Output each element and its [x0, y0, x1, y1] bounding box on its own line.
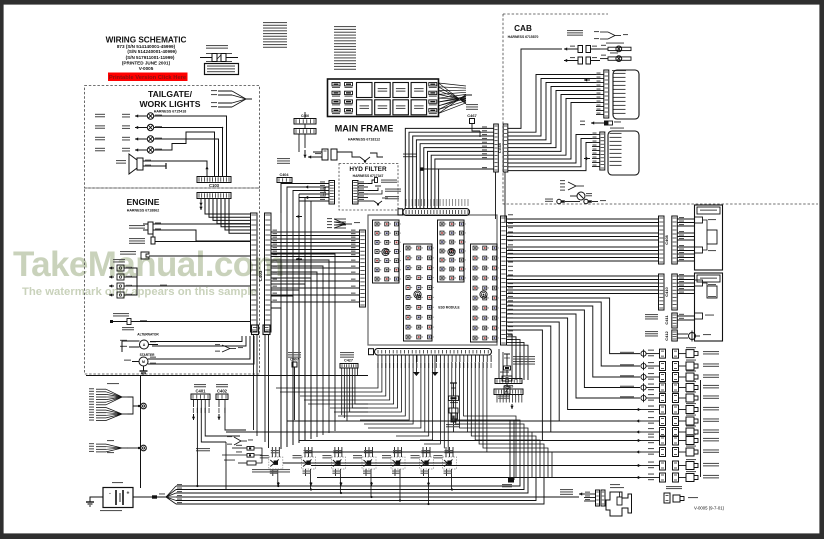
lamp wire right work light	[160, 139, 219, 176]
mainframe fan symbol	[334, 218, 346, 220]
lamp wire left taillight	[160, 128, 223, 177]
ring terminal 2	[141, 445, 147, 451]
fuel shutoff note	[122, 327, 134, 328]
fuse box outline	[328, 79, 439, 117]
svg-text:HARNESS 6718862: HARNESS 6718862	[127, 209, 160, 213]
tailgate fan symbol	[218, 90, 232, 92]
svg-text:C403: C403	[258, 270, 263, 281]
connector C427	[340, 364, 358, 369]
module terminal strip B	[404, 244, 433, 341]
connector C412	[672, 330, 678, 341]
fuse box left fuses	[332, 83, 340, 86]
battery pos wire	[133, 496, 152, 498]
lamp wire left work light jog	[160, 132, 215, 176]
battery distribution fan	[166, 486, 176, 497]
C407 label block	[288, 352, 301, 353]
connector C104	[197, 193, 231, 199]
module to solenoid nested wires	[507, 298, 640, 354]
injector 2	[117, 274, 124, 280]
battery ground note	[100, 510, 122, 511]
bus junction dots	[196, 485, 198, 487]
flasher sym	[506, 370, 508, 376]
relay 6 (FRONT)	[420, 457, 434, 469]
fuse box switch squares	[357, 83, 373, 98]
svg-text:The watermark only appears on: The watermark only appears on this sampl…	[22, 286, 257, 298]
ring terminal 1	[141, 403, 147, 409]
hyd temp sender	[368, 180, 375, 184]
speaker wire 1	[150, 161, 207, 176]
horn	[591, 122, 596, 124]
bundle C403 down to bottom	[271, 308, 281, 449]
connector C402	[216, 394, 228, 400]
cab dome lamp	[577, 192, 585, 200]
bus right risers	[700, 380, 702, 477]
fan small cab	[608, 32, 615, 36]
cab right panel	[608, 131, 639, 175]
relay 7 (TRACTION)	[443, 457, 457, 469]
engine coolant sender	[151, 237, 155, 244]
relay 5 (STARTER)	[391, 457, 405, 469]
svg-text:ENGINE: ENGINE	[127, 197, 160, 207]
module top connector	[403, 209, 470, 216]
right panel row labels	[610, 133, 622, 134]
small fan bottom	[234, 437, 241, 441]
svg-text:MAIN FRAME: MAIN FRAME	[335, 124, 394, 134]
starter ground	[143, 366, 145, 371]
module bottom connector	[375, 349, 492, 356]
relay 1 (GLOW)	[269, 457, 283, 469]
module left wire labels	[273, 230, 278, 231]
fuel shutoff wire	[138, 321, 250, 323]
svg-text:C410: C410	[664, 286, 669, 296]
fuse box wire fan	[439, 83, 467, 104]
injector feed wire	[137, 285, 250, 287]
svg-text:C105: C105	[322, 186, 327, 196]
module terminal strip C	[438, 220, 465, 282]
bundle terminal stub	[420, 167, 423, 170]
solenoid row 7 (BASE)	[636, 420, 641, 422]
ground fan 3	[96, 443, 106, 445]
C401 wires down	[196, 407, 198, 486]
right panel pin strip	[600, 132, 605, 170]
C105 feeder bundle	[281, 184, 299, 450]
arrow mid rows	[296, 216, 302, 218]
engine section dashed box	[85, 188, 260, 374]
tail/work lamp L4	[135, 149, 141, 151]
svg-text:C401: C401	[195, 389, 206, 394]
C425 pins down	[497, 396, 498, 403]
diode block 2	[247, 454, 254, 458]
connector CA60 left	[494, 124, 499, 172]
connector C401	[191, 394, 210, 400]
cab inline connectors	[557, 199, 561, 203]
relay note text	[252, 469, 290, 470]
connector C403 right half	[265, 213, 272, 332]
fuse box right fuses	[429, 83, 437, 86]
fuel sender label	[610, 487, 624, 488]
solenoid row 2 (BUCKET)	[641, 363, 646, 368]
left panel pin strip	[604, 70, 609, 118]
svg-text:CAB: CAB	[514, 24, 532, 33]
glow plug block	[148, 222, 153, 234]
C103 pin stubs dashed	[206, 168, 208, 177]
left handle internals	[695, 280, 703, 286]
battery plates	[115, 490, 117, 505]
C403 bottom inline connector B	[263, 325, 270, 335]
C403 bottom inline connector A	[252, 325, 259, 335]
tailgate section dashed box	[85, 86, 260, 189]
svg-text:HYD FILTER: HYD FILTER	[349, 166, 387, 173]
main module outline	[368, 215, 497, 345]
C403 continuation wires	[253, 335, 255, 431]
ground fan 1	[96, 388, 106, 390]
attachment text	[513, 356, 535, 357]
C401 pins	[193, 400, 195, 408]
long horizontal wire	[86, 375, 368, 377]
svg-text:M: M	[142, 360, 145, 364]
svg-text:HARNESS 6718112: HARNESS 6718112	[348, 138, 380, 142]
right panel arrow	[584, 158, 590, 160]
svg-text:C402: C402	[217, 389, 228, 394]
module terminal strip A	[373, 220, 400, 283]
svg-text:V-0005: V-0005	[139, 66, 154, 71]
svg-text:C411: C411	[664, 315, 669, 325]
bus wire labels	[177, 484, 182, 485]
svg-text:+: +	[127, 491, 130, 497]
C402 pins	[218, 400, 220, 408]
svg-text:(S/N 517911001-11999): (S/N 517911001-11999)	[126, 55, 175, 60]
module bottom pin stubs	[377, 355, 379, 362]
coolant sender wire	[162, 241, 250, 243]
connector C425 upper	[495, 379, 522, 384]
oil filter sensor	[308, 156, 313, 158]
module terminal strip D	[471, 244, 498, 342]
svg-text:C412: C412	[664, 330, 669, 340]
wires module to C408	[507, 218, 659, 220]
connector C410 strip B	[672, 274, 678, 310]
legend connector symbol	[200, 57, 212, 59]
CA60 to module bundle	[405, 128, 494, 208]
harness wires C104 to C403	[205, 199, 250, 215]
right handle box	[695, 205, 723, 270]
svg-text:ESD MODULE: ESD MODULE	[438, 306, 459, 310]
solenoid row 12 (FAN MOTOR)	[636, 477, 641, 479]
C467 tail wire	[479, 131, 481, 137]
fuel sender connectors	[596, 490, 600, 506]
right panel wires	[592, 134, 600, 136]
C401 ground arrow	[193, 414, 195, 420]
connector C410 strip A	[659, 274, 665, 310]
C401 pin labels	[193, 408, 194, 413]
svg-text:(S/N 514240001-40999): (S/N 514240001-40999)	[127, 49, 177, 54]
svg-text:(PRINTED JUNE 2001): (PRINTED JUNE 2001)	[122, 61, 171, 66]
C103 arrow pin	[206, 166, 208, 174]
svg-text:TAILGATE/: TAILGATE/	[148, 89, 193, 99]
connector C425 lower	[494, 389, 523, 395]
left panel label	[612, 70, 626, 71]
C104 ground arrow	[200, 206, 202, 210]
fuel sender wires	[579, 493, 584, 495]
C402 label	[216, 384, 228, 385]
C406 wires down	[298, 134, 300, 152]
front headlight label	[606, 43, 624, 44]
C402 wires down	[225, 407, 246, 430]
module bottom pin labels	[377, 363, 378, 368]
C467 connector	[466, 104, 478, 105]
wires module to C410	[507, 275, 659, 277]
C427 label block	[340, 352, 354, 353]
fan3 label stubs	[107, 440, 114, 441]
relay 2 (FUEL)	[302, 457, 316, 469]
solenoid row 1 (BUCKET)	[641, 351, 646, 356]
ground fan label	[107, 383, 119, 384]
connector C406 lower	[294, 129, 316, 135]
fuse sym near C425	[504, 353, 510, 355]
cab harness bundle	[508, 49, 562, 128]
glow plug wires	[160, 223, 250, 225]
tail/work lamp L3	[135, 138, 141, 140]
module bottom ground arrows	[415, 375, 417, 377]
solenoid row 11 (SAFETY)	[636, 465, 641, 467]
svg-text:C427: C427	[344, 359, 353, 363]
C425 pin wires	[496, 395, 498, 396]
dome light label	[567, 30, 583, 31]
battery ground	[86, 501, 94, 503]
ground fan joint	[128, 397, 138, 406]
front headlight 1	[600, 48, 608, 50]
CA60 continuation down	[495, 172, 497, 219]
bottom border bar	[0, 533, 824, 539]
svg-text:TakeManual.com: TakeManual.com	[13, 245, 284, 284]
hyd filter sensor sym	[368, 200, 374, 202]
solenoid row 10 (LH SIGNAL)	[636, 451, 641, 453]
connector C406 upper	[294, 119, 316, 125]
left handle box	[695, 273, 723, 341]
svg-text:Printable Version Click Here: Printable Version Click Here	[109, 75, 187, 81]
speaker wire 2	[150, 165, 166, 167]
solenoid row 5 (BICADEC)	[641, 395, 646, 400]
C412 wires horn	[677, 333, 688, 335]
legend boxed note	[205, 64, 239, 75]
connector C103	[197, 177, 231, 183]
C402 ground arrow	[218, 414, 220, 420]
module left connector	[360, 230, 366, 307]
wires C408 to right handle	[677, 218, 694, 220]
C402 pin labels	[218, 408, 219, 413]
relay chain wire	[283, 462, 452, 464]
svg-text:C408: C408	[664, 234, 669, 244]
solenoid row 8 (ATTACH)	[636, 431, 641, 433]
battery box	[103, 488, 133, 508]
alternator feed wires	[150, 336, 242, 342]
C411 wires	[677, 315, 694, 317]
svg-text:C404: C404	[279, 173, 289, 177]
wires C410 to left handle	[677, 275, 694, 277]
svg-text:STARTER: STARTER	[140, 353, 156, 357]
svg-text:HARNESS 6717347: HARNESS 6717347	[353, 174, 384, 178]
hyd filter row wires	[358, 183, 368, 185]
backup alarm speaker	[129, 154, 137, 174]
mid fan symbol	[222, 345, 230, 349]
left panel wires	[596, 74, 604, 76]
connector C105 left	[329, 181, 335, 205]
front headlight 2	[600, 58, 608, 60]
oil pressure sender	[141, 252, 149, 259]
cab ground fan	[568, 182, 576, 186]
battery neg wire	[90, 497, 103, 502]
injector 1	[117, 265, 124, 271]
C425 arrow	[511, 404, 513, 409]
diode block 1	[196, 448, 210, 449]
ground fan 3 joint	[128, 447, 138, 449]
C401 label	[194, 384, 206, 385]
injector 4	[117, 292, 124, 298]
svg-text:HARNESS 6715870: HARNESS 6715870	[508, 35, 539, 39]
cab left panel	[613, 70, 639, 119]
alternator output wire	[149, 344, 159, 346]
connector CA60 right	[503, 124, 508, 172]
attach block	[224, 460, 235, 461]
solenoid row 3 (LIFT)	[641, 374, 646, 379]
starter wires right	[148, 358, 162, 360]
oil sender wire	[156, 255, 250, 257]
right handle internals	[695, 217, 703, 223]
svg-text:WORK LIGHTS: WORK LIGHTS	[139, 99, 200, 109]
right border bar	[819, 0, 824, 539]
C104 pins down	[200, 199, 202, 207]
top border bar	[0, 0, 824, 5]
legend note text	[206, 45, 228, 46]
fuel sender note	[610, 484, 620, 485]
diode wires right	[254, 448, 262, 455]
tail/work lamp L1	[135, 115, 141, 117]
fuel sender note2	[560, 489, 573, 490]
connector C105 right	[353, 181, 359, 205]
junction dot	[222, 127, 224, 129]
printable version red box	[108, 73, 188, 82]
relay 3 (FUEL)	[331, 457, 345, 469]
svg-text:HARNESS 6715418: HARNESS 6715418	[154, 110, 187, 114]
module top pin labels	[406, 199, 407, 206]
fuel shutoff solenoid	[113, 313, 129, 314]
C427 pins	[341, 368, 343, 376]
solenoid row 6 (FRONT BASE)	[636, 409, 641, 411]
inline flasher symbol	[453, 401, 455, 409]
connector C408 strip A	[659, 216, 665, 264]
hyd charge pressure switch	[368, 188, 378, 191]
module bottom right routing	[464, 362, 517, 478]
connector C404	[277, 158, 290, 159]
divider drop wire	[140, 376, 142, 489]
relay area feeds	[225, 442, 227, 490]
battery label	[112, 482, 123, 483]
bottom connector pair	[509, 420, 511, 480]
dome connector pair 2	[564, 60, 569, 62]
lamp wire right taillight	[160, 116, 227, 176]
solenoid row 9 (LH BYPASS)	[636, 440, 641, 442]
svg-text:CA60: CA60	[497, 142, 502, 153]
module bottom routing	[276, 362, 378, 388]
relay 4 (REAR)	[362, 457, 376, 469]
connector C408 strip B	[672, 216, 678, 264]
injector bus wire	[131, 268, 137, 295]
inline fuse T symbol	[450, 382, 457, 384]
module right wire labels	[508, 214, 513, 215]
C427 pin wires	[341, 376, 343, 415]
wire color list top	[263, 22, 287, 23]
module right connector	[501, 216, 507, 345]
left panel arrow	[584, 79, 590, 81]
left panel row labels	[614, 73, 626, 74]
cab section dashed boundary	[503, 14, 818, 204]
starter feed wires	[162, 336, 250, 359]
sender small plug	[666, 486, 682, 487]
C425 up wires	[498, 349, 500, 379]
svg-text:C407: C407	[290, 358, 299, 362]
svg-text:V-0005 (9-7-01): V-0005 (9-7-01)	[694, 506, 725, 511]
svg-text:ALTERNATOR: ALTERNATOR	[137, 333, 159, 337]
fuel sender body	[606, 492, 632, 516]
connector C411	[672, 313, 678, 328]
module right lower stubs	[507, 334, 512, 380]
right panel label	[610, 128, 624, 129]
connector C403 left half	[251, 213, 258, 332]
wires into C105	[299, 183, 329, 185]
tail/work lamp L2	[135, 127, 141, 129]
ground fan 2	[96, 407, 106, 409]
long runs left to solenoid rows	[287, 420, 640, 422]
left border bar	[0, 0, 4, 539]
svg-text:C103: C103	[209, 183, 220, 188]
injector label	[113, 259, 125, 260]
relay bottom arrows	[277, 482, 279, 486]
solenoid row 4 (LIFT)	[641, 385, 646, 390]
injector 3	[117, 283, 124, 289]
wires C403 to module	[271, 231, 360, 233]
bundle wire labels	[482, 126, 487, 127]
dome connector pair 1	[564, 48, 569, 50]
svg-text:C467: C467	[467, 113, 477, 118]
hyd filter dashed box	[339, 164, 398, 211]
